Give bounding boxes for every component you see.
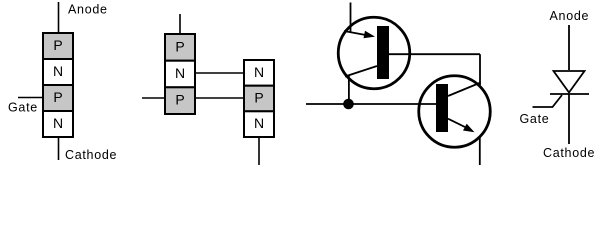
cathode bar [550, 93, 589, 95]
transistor Q2 emitter with arrow out [448, 119, 466, 128]
layer P (gate, stack 1) [43, 85, 73, 111]
wire cathode lead (symbol) [568, 94, 570, 144]
layer P (split left stack bottom) [165, 87, 195, 114]
wire N-N interconnect (split stacks) [195, 72, 244, 74]
wire anode lead (pnpn stack) [58, 2, 60, 33]
layer N (stack 1, second) [43, 59, 73, 85]
svg-text:N: N [254, 115, 264, 131]
wire gate line [306, 103, 436, 105]
layer N (split right stack top) [244, 60, 274, 86]
svg-text:Anode: Anode [550, 9, 590, 23]
svg-text:P: P [175, 39, 184, 55]
wire anode lead (split stack) [179, 14, 181, 34]
transistor Q1 emitter with arrow into base [344, 31, 367, 35]
diode triangle [554, 71, 585, 93]
wire Q1 base to Q2 collector (horizontal) [389, 53, 480, 55]
svg-text:N: N [175, 65, 185, 81]
svg-text:Cathode: Cathode [65, 148, 117, 162]
layer N (cathode, stack 1) [43, 111, 73, 137]
svg-text:Gate: Gate [8, 101, 38, 115]
layer P (split left stack top) [165, 34, 195, 61]
wire anode lead (symbol) [568, 25, 570, 70]
wire cathode lead (split stack) [258, 137, 260, 165]
transistor Q1 (PNP) circle [338, 17, 410, 89]
layer N (split left stack middle) [165, 61, 195, 88]
layer P (split right stack middle) [244, 86, 274, 112]
transistor Q2 collector [448, 83, 481, 97]
wire Q1 emitter lead (anode) [350, 3, 352, 33]
transistor Q2 (NPN) circle [419, 76, 491, 148]
svg-text:N: N [254, 64, 264, 80]
svg-text:P: P [175, 92, 184, 108]
svg-text:N: N [53, 115, 63, 131]
wire cathode lead (pnpn stack) [58, 137, 60, 160]
svg-text:P: P [53, 89, 62, 105]
wire gate lead (pnpn stack) [18, 97, 43, 99]
wire gate lead (symbol) [533, 95, 563, 107]
node junction dot [343, 99, 354, 110]
transistor Q1 collector [345, 66, 377, 77]
layer P (anode, stack 1) [43, 33, 73, 59]
transistor Q1 base bar [377, 26, 389, 79]
svg-text:N: N [53, 63, 63, 79]
svg-text:P: P [254, 90, 263, 106]
wire gate lead (split stack) [142, 97, 165, 99]
svg-text:Cathode: Cathode [543, 146, 595, 160]
wire P-P interconnect (split stacks) [195, 97, 244, 99]
transistor Q2 base bar [436, 84, 448, 132]
wire Q1 base to Q2 collector (vertical) [479, 54, 481, 85]
layer N (split right stack bottom) [244, 111, 274, 137]
wire Q1 collector to gate node [348, 76, 350, 104]
wire Q2 emitter lead (cathode) [479, 137, 481, 166]
svg-text:Anode: Anode [68, 2, 108, 16]
svg-text:Gate: Gate [520, 112, 550, 126]
svg-text:P: P [53, 37, 62, 53]
